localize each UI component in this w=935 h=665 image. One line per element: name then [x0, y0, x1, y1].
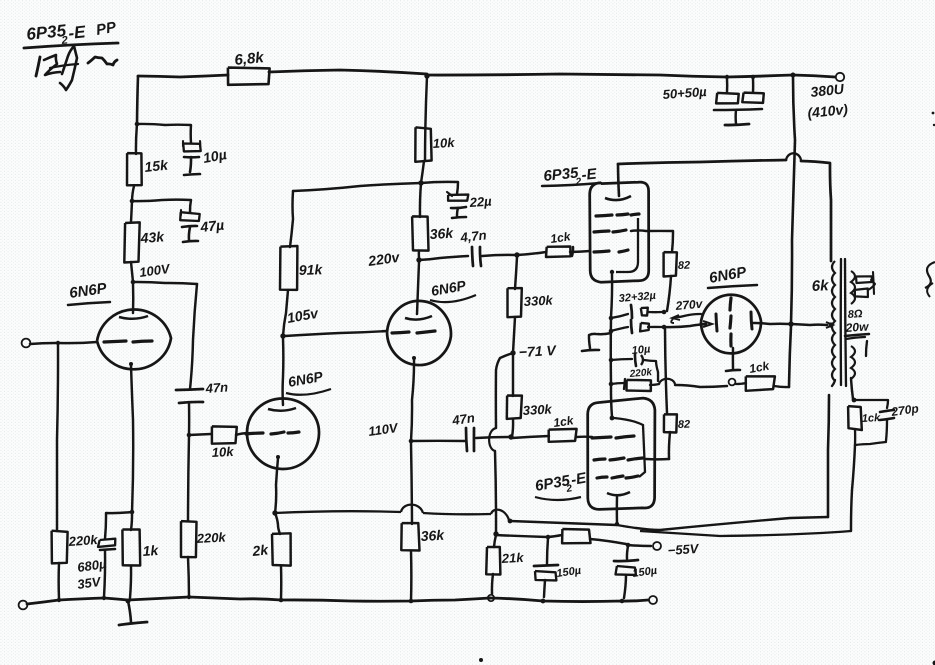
- wire 270V to T6 plate: [664, 321, 712, 327]
- wire 91k up corner: [290, 191, 293, 247]
- svg-text:270v: 270v: [674, 297, 704, 313]
- wire to cap 47u: [132, 200, 191, 212]
- label 680µ: [76, 556, 107, 575]
- wire zobel cap top: [854, 400, 888, 408]
- junction k4: [609, 382, 614, 387]
- resistor 91k: [280, 246, 297, 290]
- label 36k up: [429, 225, 454, 242]
- tube V3 grid dashes: [392, 331, 435, 333]
- junction 150u 1: [546, 535, 551, 540]
- wire 1ck to T4 grid: [570, 247, 590, 256]
- wire 36k to plate node: [418, 251, 421, 258]
- wire -55 res right: [590, 539, 626, 544]
- capacitor 10µ b: [611, 354, 658, 381]
- label 150µ 2: [632, 565, 659, 580]
- label 220k b: [628, 367, 653, 380]
- hook symbol: [582, 333, 611, 351]
- junction gnd 5: [279, 598, 284, 603]
- junction gnd 150u1: [541, 599, 546, 604]
- svg-text:36k: 36k: [420, 527, 445, 544]
- tube V2 envelope: [246, 397, 320, 470]
- tube V5 inner structure: [614, 418, 645, 477]
- junction gnd 4: [187, 595, 191, 599]
- junction k2: [609, 329, 614, 334]
- resistor 15k: [127, 153, 142, 185]
- capacitor 150µ 1: [534, 538, 558, 597]
- wire B node to 36k: [420, 183, 421, 217]
- tube V6 6N6P label: [708, 264, 757, 288]
- label 35V: [76, 574, 102, 592]
- tube V1 grid dashes: [104, 341, 152, 342]
- label 6k: [811, 277, 829, 295]
- svg-text:10k: 10k: [432, 135, 455, 151]
- wire plate T2 up: [283, 290, 288, 336]
- wire bias branch left: [496, 353, 513, 428]
- wire 10k top lower: [421, 161, 424, 183]
- wire B node up: [425, 76, 427, 161]
- junction feedback secondary: [508, 519, 513, 524]
- title scribble 12A~: [36, 46, 117, 90]
- junction gnd 1: [57, 598, 61, 602]
- capacitor 10µ plus plate: [183, 141, 201, 151]
- resistor 1ck row2: [549, 429, 577, 442]
- ground 50u: [725, 110, 749, 125]
- wire 82-2 into T5: [646, 458, 669, 461]
- wire input node down: [57, 345, 58, 531]
- label 220k input: [67, 532, 99, 549]
- title underline: [24, 43, 118, 48]
- wire 43k to plate node: [131, 262, 133, 282]
- label 10µ b: [631, 343, 651, 357]
- wire 2k ground: [280, 566, 283, 599]
- junction plate T2: [280, 333, 285, 338]
- wire top rail left corner to 6.8k: [138, 75, 228, 77]
- wire 330k2 to bias node: [512, 355, 514, 396]
- wire 1ck to B+ column: [774, 386, 789, 387]
- junction cathode T3: [409, 439, 414, 444]
- junction primary center tap: [828, 322, 833, 327]
- svg-text:PP: PP: [95, 19, 119, 39]
- label 150µ 1: [556, 565, 583, 580]
- label 36k low: [420, 527, 445, 544]
- wire 1ck row2 to V5 grid: [576, 435, 592, 438]
- svg-text:220k: 220k: [67, 532, 99, 549]
- svg-text:2k: 2k: [251, 541, 270, 559]
- tube V3 6N6P label: [430, 277, 476, 302]
- label 10µ: [202, 146, 228, 166]
- junction plate T1: [131, 280, 136, 285]
- wire 82-2 down: [669, 432, 670, 459]
- tube V1 cathode: [129, 362, 133, 512]
- label 100V: [138, 261, 171, 280]
- capacitor 32µ A: [611, 305, 662, 318]
- tube V1 plate: [119, 284, 148, 319]
- wire input to grid: [30, 342, 97, 344]
- label 50+50u: [662, 84, 707, 102]
- tube V5 top pin: [611, 386, 612, 417]
- junction k3: [609, 358, 614, 363]
- label -55V: [667, 541, 700, 558]
- junction top x427: [424, 73, 429, 78]
- junction gnd 6: [409, 599, 414, 604]
- wire node to 1ck: [517, 252, 546, 255]
- wire B node right: [421, 182, 458, 194]
- capacitor 47µ plus plate: [180, 210, 200, 221]
- label 10k T2: [211, 444, 234, 460]
- wire 47n to grid node: [188, 403, 191, 434]
- hop over grid row: [489, 428, 496, 451]
- junction 270V a: [662, 310, 667, 315]
- resistor 330k 2: [507, 396, 522, 419]
- junction gnd 3: [126, 599, 131, 604]
- tube V3 cathode: [411, 356, 416, 441]
- junction grid node T2: [187, 433, 192, 438]
- resistor 220k b: [611, 379, 651, 391]
- svg-text:91k: 91k: [299, 261, 324, 278]
- tube V5 plate pin: [616, 497, 619, 523]
- tube V5 plate: [607, 492, 630, 495]
- svg-text:330k: 330k: [522, 401, 552, 418]
- label 21k: [500, 550, 524, 566]
- junction plate T3: [416, 257, 421, 262]
- tube V6 envelope: [701, 295, 761, 354]
- wire 15k to node: [132, 186, 134, 201]
- resistor 6,8k: [228, 68, 270, 85]
- wire 220k T2 ground: [188, 557, 189, 597]
- svg-text:82: 82: [678, 260, 691, 272]
- arrow 270v: [671, 314, 701, 323]
- label 110V: [367, 420, 400, 439]
- resistor 82 2: [664, 414, 677, 432]
- wire secondary return down: [851, 445, 855, 531]
- svg-text:82: 82: [678, 419, 691, 431]
- capacitor 47n 2: [466, 428, 474, 451]
- svg-text:-E: -E: [581, 165, 599, 184]
- transformer secondary upper: [851, 271, 855, 304]
- terminal -55V: [653, 542, 661, 550]
- tube V1 envelope: [96, 308, 173, 372]
- resistor 1ck zobel: [848, 406, 862, 430]
- resistor 36k up: [412, 216, 428, 250]
- wire screen T4 right: [631, 230, 673, 252]
- speaker terminals: [855, 272, 875, 297]
- svg-text:36k: 36k: [429, 225, 454, 242]
- wire grid node down: [188, 435, 189, 521]
- junction T6 cathode B+: [788, 321, 793, 326]
- junction plate wire T5: [615, 522, 619, 526]
- wire -55 node right: [496, 535, 547, 537]
- terminal 21k gnd: [488, 595, 494, 601]
- capacitor 50u B: [742, 79, 764, 103]
- svg-text:−55V: −55V: [667, 541, 700, 558]
- wire to cap 10u: [137, 124, 191, 143]
- junction gnd 150u2: [620, 599, 625, 604]
- ground symbol: [119, 601, 147, 625]
- junction feedback tap: [272, 510, 277, 515]
- wire node to 1ck row2: [512, 436, 549, 438]
- label 105v: [286, 305, 321, 326]
- tube V4 envelope: [590, 182, 649, 282]
- label 4,7n: [459, 227, 487, 245]
- wire 47n2 to grid node: [476, 437, 509, 438]
- label 330k 1: [523, 292, 553, 309]
- label 15k: [144, 157, 170, 175]
- label 8ohm: [847, 308, 863, 321]
- junction 50u cap b: [751, 75, 755, 79]
- label 270p: [889, 401, 919, 419]
- wire junction to 15k: [136, 124, 137, 154]
- wire bias branch lowest: [0, 0, 1, 1]
- svg-text:4,7n: 4,7n: [459, 227, 487, 245]
- wire grid circle to 1ck: [736, 383, 746, 384]
- resistor 82 1: [664, 252, 677, 276]
- edge mark curl 2: [927, 283, 933, 297]
- svg-text:50+50µ: 50+50µ: [662, 84, 707, 102]
- transformer secondary lower: [851, 346, 855, 379]
- label 1ck T6: [748, 358, 771, 375]
- wire secondary return: [640, 531, 851, 536]
- svg-text:6,8k: 6,8k: [234, 49, 265, 69]
- wire 330k1 to drive node: [515, 257, 517, 289]
- wire B+ drop x793: [791, 77, 795, 324]
- cap common plate: [714, 109, 762, 110]
- label 43k: [139, 228, 166, 246]
- tube V2 cathode: [275, 455, 280, 513]
- wire 270V column down: [665, 329, 667, 413]
- capacitor 22µ minus: [451, 207, 466, 218]
- wire cathode T3 down: [411, 443, 412, 524]
- svg-text:15k: 15k: [144, 157, 170, 175]
- terminal ground right: [649, 596, 657, 604]
- resistor 21k: [486, 535, 500, 575]
- wire -55 res left: [548, 535, 562, 537]
- resistor 43k: [124, 222, 139, 262]
- label 1ck row1: [549, 229, 572, 246]
- tube V6 plate bar: [716, 314, 717, 331]
- resistor -55 series: [562, 529, 590, 543]
- label 91k: [299, 261, 324, 278]
- wire node to 43k: [131, 201, 132, 222]
- junction zobel top: [852, 398, 857, 403]
- junction drive node: [514, 252, 519, 257]
- input terminal: [22, 339, 31, 348]
- svg-text:1k: 1k: [142, 542, 160, 559]
- wire T2 plate to T3 grid: [285, 331, 387, 336]
- tube V4 cathode dot: [610, 270, 614, 274]
- junction 47u tap: [130, 199, 135, 204]
- svg-text:47n: 47n: [204, 379, 228, 396]
- junction 270V b: [662, 325, 667, 330]
- resistor 220k input: [52, 531, 68, 564]
- label 1ck row2: [552, 413, 575, 430]
- wire 82-1 down: [667, 276, 671, 311]
- tube V5 grid3 dashes: [597, 476, 638, 478]
- tube V3 plate: [405, 262, 432, 320]
- capacitor 32µ B: [611, 320, 662, 333]
- edge mark curl 1: [925, 262, 935, 288]
- wire bias branch lower: [495, 451, 496, 533]
- label 2k: [251, 541, 270, 559]
- secondary tap tick: [866, 341, 867, 356]
- scan speck 1: [932, 112, 935, 127]
- junction 150u 2: [626, 543, 631, 548]
- label -71V: [518, 342, 557, 360]
- svg-text:1ck: 1ck: [552, 413, 575, 430]
- label 330k 2: [522, 401, 552, 418]
- junction B+ drop: [791, 73, 796, 78]
- label 270v: [674, 297, 704, 313]
- label (410v): [807, 101, 849, 121]
- junction -55V node: [493, 531, 498, 536]
- label 47n: [204, 379, 228, 396]
- capacitor 4,7n: [472, 247, 481, 266]
- wire left vertical from corner: [137, 76, 138, 124]
- tube V4 screen dashes: [596, 214, 639, 216]
- wire feedback run: [275, 505, 509, 520]
- tube V3 envelope: [385, 299, 452, 366]
- wire cathode T3 right: [411, 440, 465, 443]
- wire T3 plate node right: [419, 256, 468, 260]
- scan speck 2: [479, 658, 935, 665]
- label 6,8k: [234, 49, 265, 69]
- label 220k T2: [195, 529, 226, 546]
- tube V1 6N6P label: [68, 280, 110, 305]
- svg-text:220k: 220k: [628, 367, 653, 380]
- capacitor 10µ minus: [184, 157, 200, 175]
- wire down to 47n: [190, 284, 197, 389]
- junction input node: [56, 341, 60, 345]
- tube V4 grid2 dashes: [594, 230, 626, 232]
- svg-text:22µ: 22µ: [468, 193, 492, 210]
- tube V5 grid dashes: [592, 436, 634, 438]
- resistor 36k low: [401, 523, 419, 550]
- resistor 330k 1: [508, 288, 522, 317]
- resistor 2k: [272, 513, 291, 566]
- capacitor 47n input: [176, 389, 203, 403]
- junction cathode T1: [130, 510, 135, 515]
- junction V5 inner: [610, 416, 615, 421]
- transformer core: [841, 259, 846, 386]
- label 22µ: [468, 193, 492, 210]
- wire plate run T5: [510, 517, 828, 530]
- wire 21k down: [492, 574, 493, 594]
- tube V4 plate lead: [605, 164, 631, 200]
- tube V5 6P352-E label: [534, 469, 589, 500]
- junction bias -71V: [510, 350, 515, 355]
- wire node to 330k2: [512, 419, 513, 437]
- wire 220k b right hop: [650, 379, 727, 387]
- wire corner to B node: [293, 183, 421, 191]
- tube V2 6N6P label: [286, 368, 331, 395]
- svg-text:330k: 330k: [523, 292, 553, 309]
- label 10k top: [432, 135, 455, 151]
- label 380U: [810, 80, 846, 100]
- label 47n 2: [450, 410, 475, 428]
- junction B node: [418, 180, 423, 185]
- svg-text:1ck: 1ck: [862, 412, 882, 425]
- svg-text:20w: 20w: [844, 319, 869, 335]
- wire to 68u: [105, 512, 132, 539]
- wire grid node right: [189, 434, 211, 435]
- tube V4 grid dashes: [594, 250, 628, 252]
- terminal 380V: [836, 73, 844, 81]
- wire to primary center: [791, 322, 833, 328]
- wire plate node right: [133, 282, 197, 284]
- svg-text:220k: 220k: [195, 529, 226, 546]
- capacitor 150µ 2: [614, 546, 638, 598]
- wire 1k to ground: [130, 566, 131, 598]
- svg-text:-E: -E: [67, 22, 87, 43]
- label 82 2: [678, 419, 691, 431]
- junction gnd 2: [102, 596, 106, 600]
- resistor 1ck row1: [546, 247, 571, 258]
- junction grid node T5: [508, 434, 513, 439]
- wire 10k to T2 grid: [236, 433, 248, 435]
- tube V4 cathode lead: [611, 274, 612, 317]
- wire below center tap: [789, 326, 791, 387]
- svg-text:6k: 6k: [811, 277, 829, 295]
- capacitor 47µ minus: [182, 226, 198, 242]
- wire top rail 6.8k to B+ node: [269, 70, 427, 74]
- label 47µ: [199, 217, 225, 235]
- terminal ground left: [19, 601, 28, 610]
- capacitor 680µ: [98, 539, 115, 550]
- tube V6 grid lead: [726, 348, 740, 371]
- svg-text:10k: 10k: [211, 444, 234, 460]
- wire zobel bottom: [855, 429, 886, 445]
- junction k1: [609, 316, 614, 321]
- resistor 1ck T6: [746, 376, 775, 391]
- label 32+32µ: [618, 290, 657, 305]
- wire 68u to ground: [104, 550, 105, 597]
- label 20w: [844, 319, 869, 339]
- resistor 1k: [122, 512, 140, 566]
- tube V5 envelope: [588, 398, 655, 509]
- label 220v: [366, 249, 401, 269]
- capacitor 50u A: [716, 79, 739, 103]
- tube V2 grid dashes: [246, 432, 299, 434]
- label 1k: [142, 542, 160, 559]
- junction 10u tap: [135, 122, 140, 127]
- transformer primary winding: [832, 261, 835, 386]
- tube V6 grid dashes: [730, 298, 731, 346]
- wire top rail to 380V terminal: [427, 74, 835, 77]
- wire 220k to ground: [57, 563, 60, 599]
- wire plate run up: [828, 395, 829, 517]
- wire k1-k4 column: [610, 318, 613, 384]
- terminal T6 grid: [729, 379, 736, 386]
- svg-text:−71 V: −71 V: [518, 342, 557, 360]
- label 82 1: [678, 260, 691, 272]
- wire ground rail right: [490, 598, 648, 602]
- svg-text:1ck: 1ck: [549, 229, 572, 246]
- wire to -55 terminal: [628, 545, 651, 546]
- tube V6 cathode bar: [751, 312, 752, 329]
- capacitor 22µ plus: [447, 192, 468, 201]
- wire secondary lower lead: [851, 378, 853, 399]
- wire 4,7n to node: [482, 255, 515, 256]
- wire T6 cathode right: [753, 323, 789, 324]
- resistor 10k top: [415, 127, 431, 162]
- wire 36k low ground: [410, 551, 413, 601]
- svg-text:47µ: 47µ: [199, 217, 225, 235]
- wire T4 plate top: [618, 153, 831, 261]
- tube V5 screen dashes: [594, 458, 643, 460]
- resistor 220k T2: [181, 521, 197, 557]
- wire ground rail: [27, 597, 490, 604]
- tube V4 6P352-E label: [542, 164, 601, 188]
- svg-text:21k: 21k: [500, 550, 524, 566]
